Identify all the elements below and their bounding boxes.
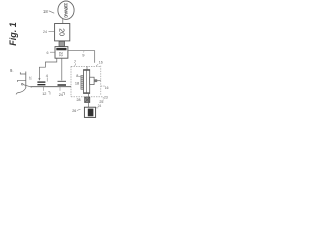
right small box [90, 77, 94, 84]
right capacitor plates [58, 80, 67, 82]
box 20 [55, 24, 70, 41]
right capacitor feed [61, 58, 63, 80]
left capacitor plates [37, 81, 45, 83]
svg-text:28: 28 [77, 98, 81, 102]
label 12 under bus [42, 87, 44, 91]
actuator inner wall [86, 70, 88, 94]
bottom box [84, 107, 95, 117]
stub and label 24 bottom right [96, 107, 99, 109]
svg-text:22: 22 [58, 52, 63, 57]
actuator stub top [86, 66, 88, 69]
label 24 under bus [59, 87, 61, 91]
svg-text:8: 8 [76, 74, 78, 78]
hatched block bottom of actuator [85, 97, 90, 103]
bus wire [31, 86, 72, 88]
label 9 under wire [83, 51, 85, 52]
bottom box dark fill [88, 109, 94, 117]
actuator tall box [84, 70, 90, 94]
svg-text:24: 24 [98, 104, 102, 108]
svg-text:Fig. 1: Fig. 1 [8, 22, 18, 46]
svg-text:12: 12 [42, 92, 46, 96]
plug prong top [20, 72, 26, 74]
leader line to source [49, 11, 54, 13]
dashed enclosure [71, 66, 103, 101]
AC source circle [58, 1, 74, 19]
svg-text:7: 7 [74, 59, 77, 64]
plug cord [16, 88, 26, 95]
svg-text:20: 20 [57, 28, 64, 36]
svg-text:23: 23 [104, 96, 108, 100]
svg-text:110VAC: 110VAC [63, 3, 68, 19]
svg-text:4: 4 [46, 74, 48, 78]
svg-text:9.: 9. [10, 68, 14, 73]
plug face [25, 72, 27, 89]
svg-text:16: 16 [99, 61, 103, 65]
plug prong bottom [18, 80, 26, 82]
svg-text:24: 24 [43, 30, 47, 34]
svg-text:10: 10 [28, 76, 32, 80]
svg-text:16: 16 [105, 86, 109, 90]
box 22 [55, 47, 68, 59]
wire box22 to right vertical [68, 51, 95, 63]
left strip element [81, 76, 83, 90]
bracket mark [63, 93, 65, 96]
svg-text:18: 18 [43, 9, 48, 14]
wire actuator to bottom box [88, 94, 90, 108]
svg-text:18: 18 [75, 82, 79, 86]
plug terminal circle [21, 83, 23, 85]
svg-text:6: 6 [47, 51, 49, 55]
stub to dashed line [94, 80, 101, 82]
staircase wire box22 to left capacitor [39, 58, 56, 78]
svg-text:24: 24 [59, 93, 63, 97]
small valve component on stub [95, 79, 98, 82]
svg-text:26: 26 [72, 109, 76, 113]
dashed tick to label 23 [101, 85, 105, 87]
arrowhead down [38, 78, 40, 80]
svg-text:9: 9 [82, 53, 85, 58]
switch diagonal to bus [23, 85, 32, 88]
dark bar in box 22 [56, 48, 66, 50]
wire source to box 20 [62, 19, 64, 24]
connector block between boxes [59, 41, 65, 46]
